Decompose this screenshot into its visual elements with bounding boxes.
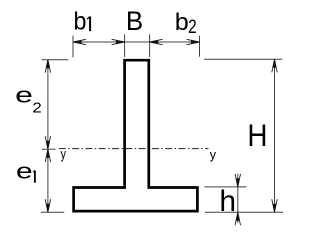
extension line H top	[204, 58, 282, 60]
svg-text:2: 2	[188, 15, 197, 37]
label e1	[16, 158, 33, 183]
label b2	[175, 9, 189, 35]
label B	[126, 6, 143, 37]
centerline y-y (dash-dot)	[59, 148, 209, 150]
arrow e1 up	[45, 149, 50, 162]
extension line stem right (x=149.6)	[149, 34, 151, 57]
arrow H down	[272, 199, 277, 212]
arrow H up	[272, 59, 277, 72]
svg-text:H: H	[247, 118, 267, 153]
arrow b2 right	[187, 39, 200, 44]
svg-text:B: B	[126, 6, 143, 37]
label y left	[61, 146, 67, 161]
label H	[247, 118, 267, 153]
arrow e2 down	[45, 136, 50, 149]
label b1	[74, 8, 87, 36]
svg-text:y: y	[61, 146, 67, 161]
top dimension line	[73, 41, 200, 43]
arrow b1 right	[112, 39, 125, 44]
arrow h bottom (up)	[235, 212, 240, 225]
extension line stem left (x=124.6)	[124, 34, 126, 57]
arrow h top (down)	[235, 174, 240, 187]
svg-text:e: e	[15, 82, 33, 107]
svg-text:b: b	[74, 8, 87, 36]
label h	[219, 185, 236, 218]
left dimension line e2/e1	[47, 60, 49, 213]
svg-text:h: h	[219, 185, 236, 218]
H dimension line	[274, 59, 276, 212]
T-profile outline	[74, 60, 198, 211]
arrow e1 down	[45, 199, 50, 212]
arrow b1 left	[73, 39, 86, 44]
extension tick e mid	[42, 148, 56, 150]
extension line h top	[205, 186, 247, 188]
arrow e2 up	[45, 60, 50, 73]
extension line e2 top	[42, 59, 69, 61]
svg-text:y: y	[210, 148, 217, 162]
extension line H bottom	[205, 211, 283, 213]
extension line b1 left (x=73)	[72, 36, 74, 58]
svg-text:2: 2	[32, 101, 41, 117]
svg-text:e: e	[16, 158, 33, 183]
label e2	[15, 82, 33, 107]
extension line b2 right (x=199.5)	[199, 36, 201, 57]
h dimension line	[237, 174, 239, 224]
extension line e1 bottom	[41, 211, 64, 213]
svg-text:b: b	[175, 9, 189, 35]
label y right	[210, 148, 217, 162]
arrow b2 left	[150, 39, 163, 44]
